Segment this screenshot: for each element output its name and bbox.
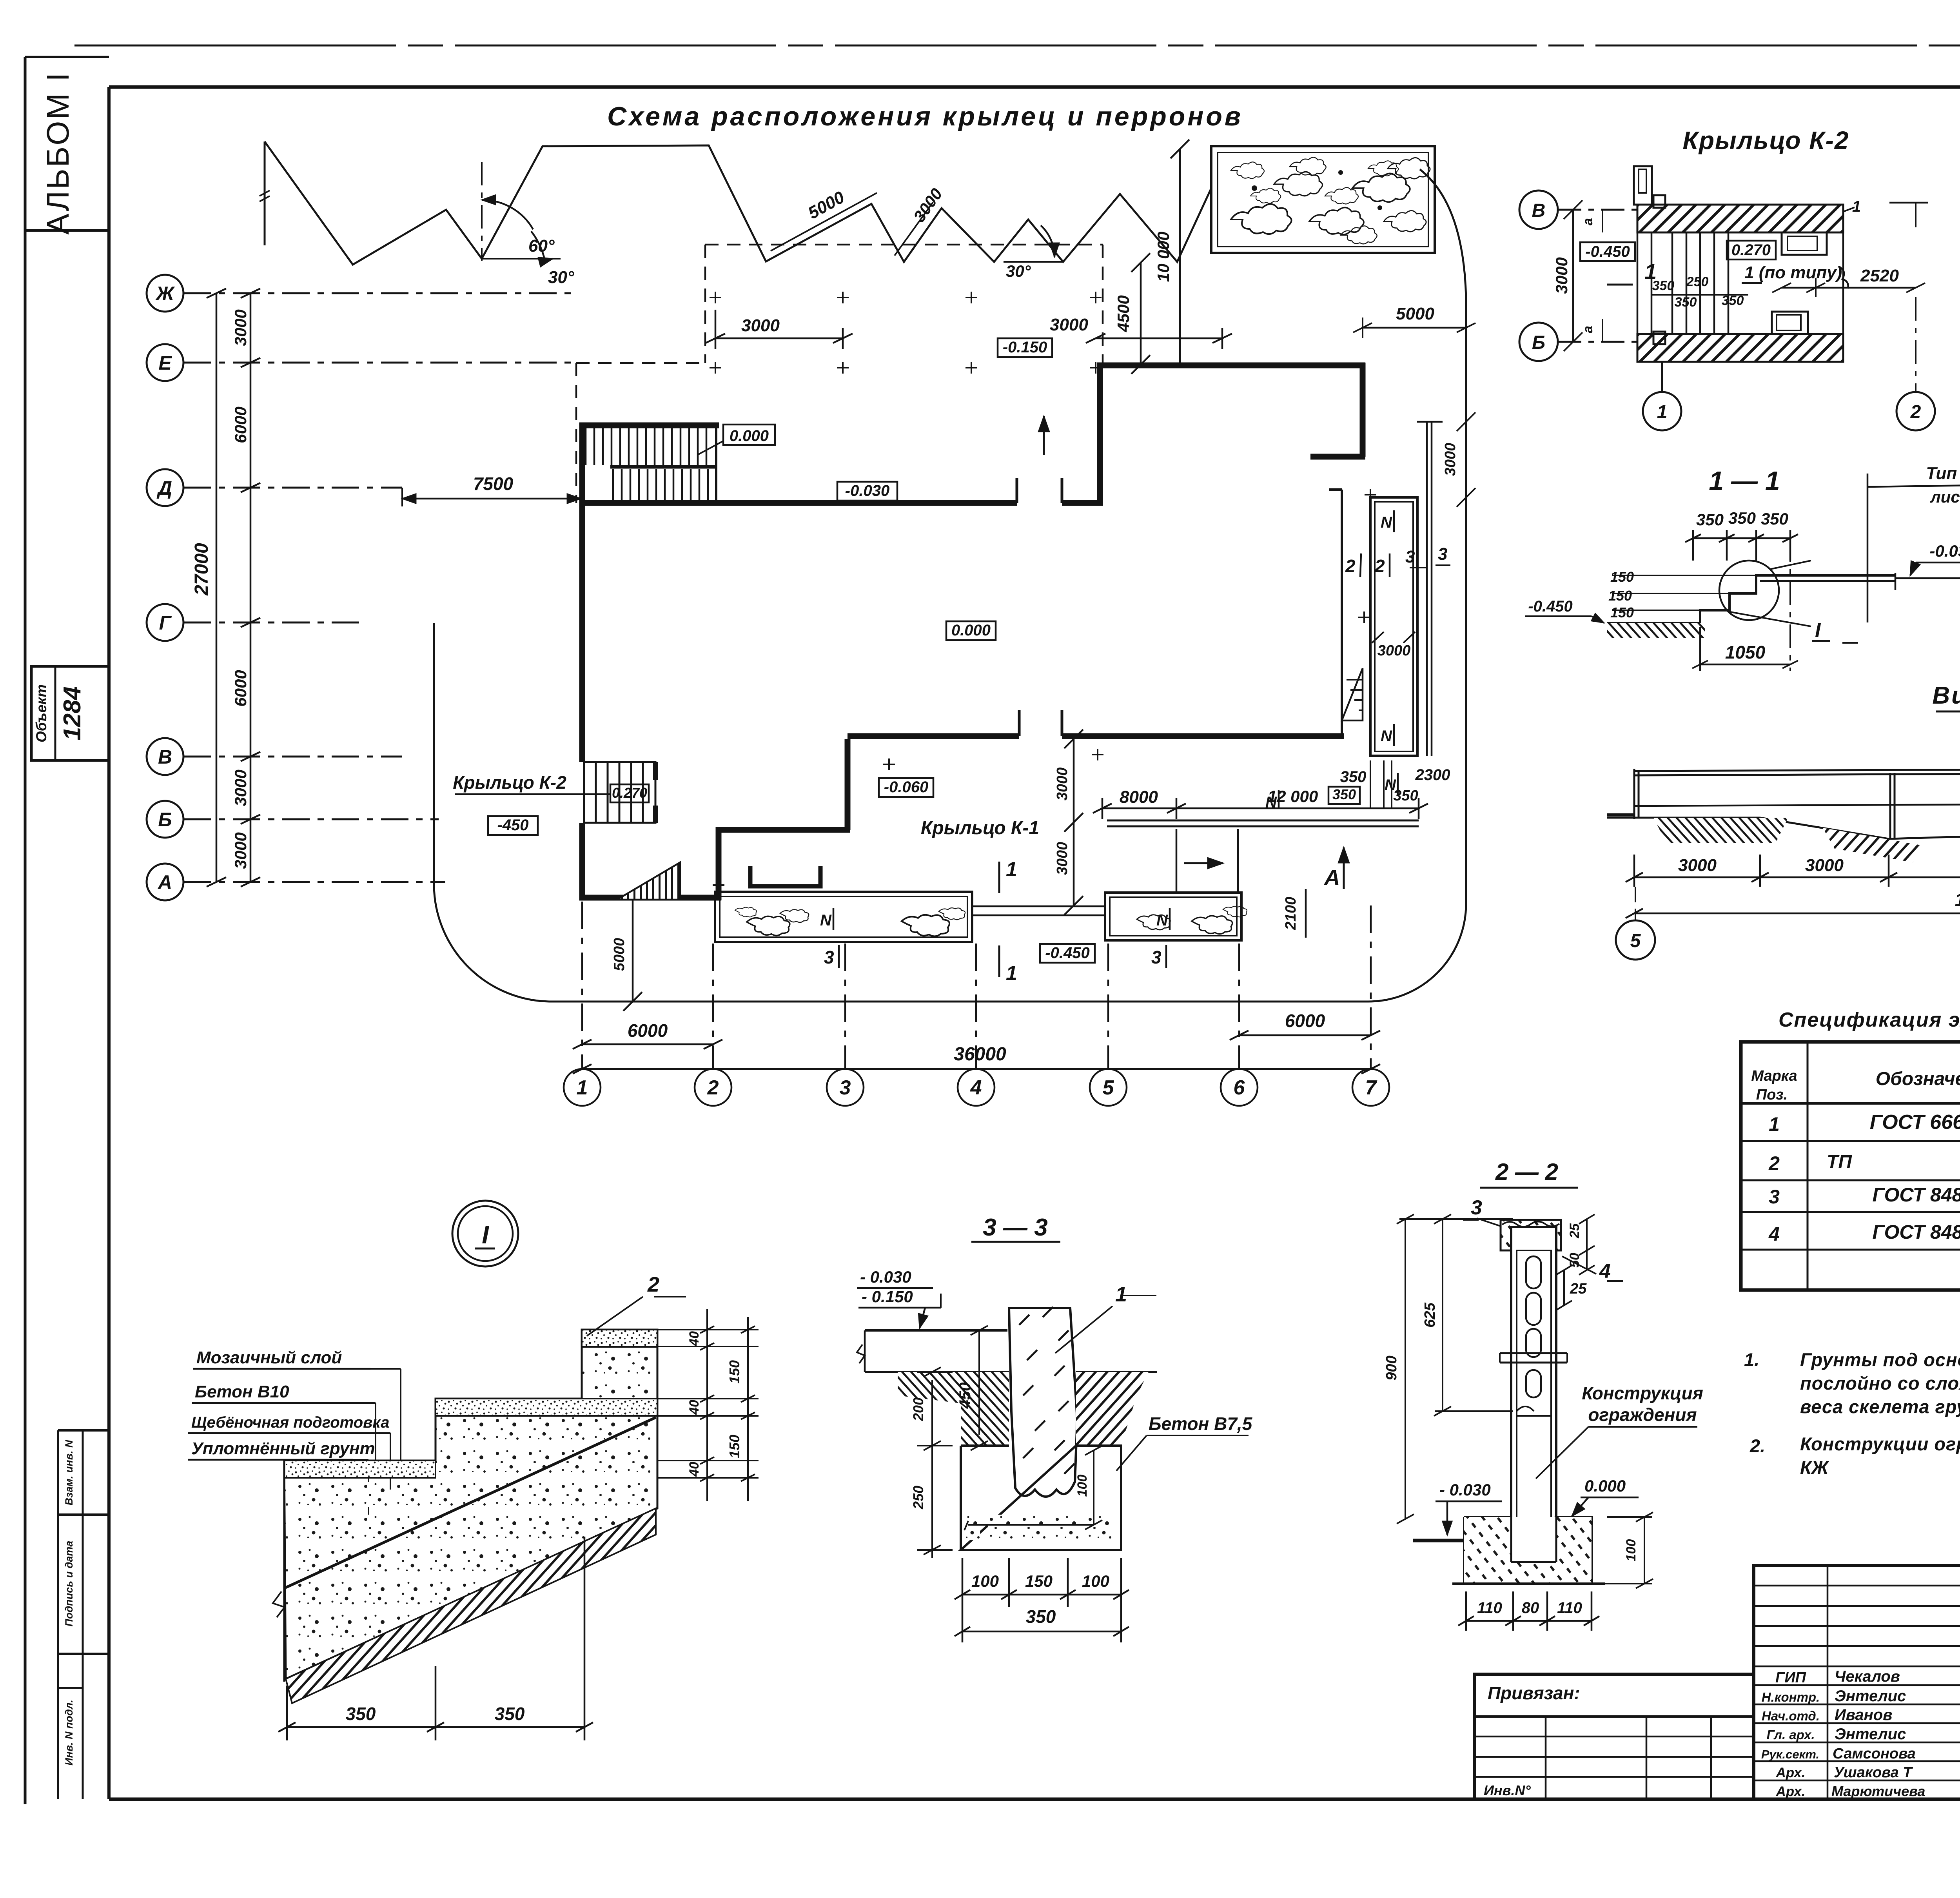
svg-text:Арх.: Арх. <box>1776 1765 1806 1780</box>
svg-text:0.000: 0.000 <box>951 622 991 639</box>
svg-text:40: 40 <box>687 1400 702 1415</box>
svg-text:3000: 3000 <box>1377 642 1411 659</box>
svg-text:Щебёночная подготовка: Щебёночная подготовка <box>191 1414 389 1431</box>
svg-text:1284: 1284 <box>59 686 86 740</box>
svg-text:послойно со слоями 20 ÷ 30: послойно со слоями 20 ÷ 30 см с доведени… <box>1800 1373 1960 1394</box>
svg-text:1: 1 <box>1852 198 1861 215</box>
svg-text:200: 200 <box>910 1397 926 1421</box>
svg-text:Крыльцо К-1: Крыльцо К-1 <box>921 818 1039 838</box>
svg-text:4500: 4500 <box>1114 295 1132 332</box>
svg-text:100: 100 <box>1082 1572 1109 1590</box>
svg-text:3: 3 <box>840 1076 851 1099</box>
svg-text:Взам. инв. N: Взам. инв. N <box>63 1440 75 1505</box>
svg-text:15 000: 15 000 <box>1955 890 1960 911</box>
svg-text:3: 3 <box>824 947 834 967</box>
svg-text:Бетон В7,5: Бетон В7,5 <box>1149 1414 1253 1434</box>
svg-text:ограждения: ограждения <box>1588 1404 1697 1425</box>
svg-text:Чекалов: Чекалов <box>1835 1668 1900 1685</box>
svg-text:N: N <box>1265 794 1277 811</box>
svg-text:1 (по типу): 1 (по типу) <box>1744 263 1842 282</box>
svg-text:0.270: 0.270 <box>1731 241 1771 259</box>
svg-text:2: 2 <box>1345 556 1356 576</box>
svg-text:2100: 2100 <box>1283 897 1299 931</box>
svg-text:КЖ: КЖ <box>1800 1457 1829 1478</box>
svg-text:25: 25 <box>1567 1223 1582 1239</box>
svg-text:ГОСТ 6665-82: ГОСТ 6665-82 <box>1870 1111 1960 1134</box>
svg-text:ТП: ТП <box>1827 1152 1852 1172</box>
svg-text:Арх.: Арх. <box>1776 1784 1806 1799</box>
svg-text:-0.450: -0.450 <box>1045 944 1089 962</box>
svg-text:450: 450 <box>956 1383 974 1409</box>
svg-text:110: 110 <box>1557 1599 1582 1617</box>
svg-text:6000: 6000 <box>231 406 250 443</box>
svg-text:3000: 3000 <box>231 769 250 806</box>
svg-text:-0.030: -0.030 <box>845 482 889 499</box>
svg-text:0.270: 0.270 <box>612 785 647 801</box>
svg-text:350: 350 <box>1761 510 1788 528</box>
svg-text:Рук.сект.: Рук.сект. <box>1761 1747 1819 1761</box>
svg-text:350: 350 <box>1026 1606 1056 1627</box>
svg-text:3: 3 <box>1151 947 1161 967</box>
svg-text:I: I <box>1815 619 1821 642</box>
svg-text:36000: 36000 <box>954 1044 1006 1065</box>
svg-text:6000: 6000 <box>628 1020 668 1041</box>
svg-text:3 — 3: 3 — 3 <box>983 1214 1047 1241</box>
svg-text:ГОСТ 8486-66: ГОСТ 8486-66 <box>1872 1184 1960 1206</box>
svg-text:Б: Б <box>158 809 172 831</box>
svg-text:- 0.150: - 0.150 <box>862 1287 913 1306</box>
svg-text:250: 250 <box>1686 274 1709 289</box>
svg-text:Конструкции ограждения крыл: Конструкции ограждения крыльца приведены… <box>1800 1433 1960 1454</box>
svg-text:2 — 2: 2 — 2 <box>1495 1159 1558 1185</box>
svg-text:Н.контр.: Н.контр. <box>1762 1690 1820 1704</box>
svg-text:1: 1 <box>1657 402 1668 423</box>
svg-text:3: 3 <box>1438 544 1447 564</box>
svg-text:Тип пола 1: Тип пола 1 <box>1926 464 1960 483</box>
svg-text:Мозаичный слой: Мозаичный слой <box>196 1348 342 1367</box>
svg-text:25: 25 <box>1570 1281 1587 1297</box>
svg-text:4: 4 <box>1599 1260 1611 1283</box>
svg-text:2: 2 <box>647 1273 659 1296</box>
svg-text:Гл. арх.: Гл. арх. <box>1766 1727 1815 1742</box>
svg-text:Б: Б <box>1532 332 1545 353</box>
svg-text:Крыльцо К-2: Крыльцо К-2 <box>453 772 566 793</box>
svg-text:Энтелис: Энтелис <box>1835 1726 1906 1743</box>
svg-text:-0.450: -0.450 <box>1585 243 1630 260</box>
svg-text:-0.450: -0.450 <box>1528 598 1572 615</box>
svg-text:Подпись и дата: Подпись и дата <box>63 1541 75 1627</box>
svg-text:3000: 3000 <box>1054 768 1071 801</box>
svg-text:Обозначение: Обозначение <box>1876 1069 1960 1089</box>
svg-text:N: N <box>820 912 832 929</box>
svg-text:Спецификация элементов благо: Спецификация элементов благоустройства к… <box>1779 1009 1960 1031</box>
svg-text:В: В <box>1532 200 1546 221</box>
svg-text:100: 100 <box>1624 1539 1639 1562</box>
svg-text:150: 150 <box>726 1435 742 1458</box>
svg-text:3: 3 <box>1405 547 1415 566</box>
svg-text:Бетон В10: Бетон В10 <box>195 1382 289 1401</box>
svg-text:Д: Д <box>156 477 172 499</box>
svg-text:30°: 30° <box>548 268 574 287</box>
svg-text:Грунты под основания лестни: Грунты под основания лестниц и пандусов … <box>1800 1349 1960 1370</box>
svg-text:5000: 5000 <box>611 938 628 971</box>
svg-text:7500: 7500 <box>473 474 514 494</box>
svg-text:3000: 3000 <box>1442 443 1459 476</box>
svg-text:3000: 3000 <box>741 316 780 335</box>
svg-text:-0.060: -0.060 <box>884 778 928 796</box>
svg-text:- 0.030: - 0.030 <box>1439 1481 1491 1499</box>
svg-text:-0.030: -0.030 <box>1929 542 1960 560</box>
svg-text:350: 350 <box>1652 278 1675 293</box>
svg-text:40: 40 <box>687 1331 702 1346</box>
svg-text:Ушакова Т: Ушакова Т <box>1834 1764 1913 1781</box>
svg-text:Уплотнённый грунт: Уплотнённый грунт <box>191 1439 375 1458</box>
svg-text:100: 100 <box>1075 1475 1090 1497</box>
svg-text:Марка: Марка <box>1751 1068 1797 1084</box>
svg-text:Самсонова: Самсонова <box>1833 1746 1916 1762</box>
svg-text:60°: 60° <box>528 236 555 256</box>
svg-text:7: 7 <box>1365 1076 1377 1099</box>
svg-text:150: 150 <box>1610 604 1634 621</box>
svg-text:0.000: 0.000 <box>1584 1477 1626 1495</box>
svg-text:Крыльцо К-2: Крыльцо К-2 <box>1683 126 1849 154</box>
svg-text:900: 900 <box>1383 1355 1400 1380</box>
svg-text:N: N <box>1385 777 1396 794</box>
svg-text:150: 150 <box>1608 588 1632 604</box>
svg-text:2: 2 <box>707 1076 719 1099</box>
svg-text:а: а <box>1581 218 1595 225</box>
svg-text:3000: 3000 <box>1552 257 1571 294</box>
svg-text:Е: Е <box>158 352 172 374</box>
svg-text:1: 1 <box>1006 962 1017 985</box>
svg-text:1: 1 <box>1115 1283 1127 1306</box>
svg-text:625: 625 <box>1422 1302 1438 1327</box>
svg-text:1 — 1: 1 — 1 <box>1709 466 1780 496</box>
svg-text:АЛЬБОМ I: АЛЬБОМ I <box>40 71 75 234</box>
svg-text:3: 3 <box>1471 1196 1482 1219</box>
svg-text:ГОСТ 8486-66: ГОСТ 8486-66 <box>1872 1221 1960 1243</box>
svg-text:лист 16: лист 16 <box>1930 488 1960 506</box>
svg-text:5000: 5000 <box>1396 304 1434 323</box>
svg-text:I: I <box>482 1221 489 1249</box>
svg-text:5: 5 <box>1103 1076 1114 1099</box>
svg-text:2: 2 <box>1910 402 1921 423</box>
svg-text:Инв. N подл.: Инв. N подл. <box>63 1700 75 1766</box>
svg-text:Объект: Объект <box>33 684 49 742</box>
svg-text:5: 5 <box>1630 931 1641 951</box>
svg-text:80: 80 <box>1522 1599 1539 1617</box>
svg-text:6: 6 <box>1234 1076 1245 1099</box>
svg-text:27000: 27000 <box>191 543 212 596</box>
svg-text:150: 150 <box>726 1360 742 1384</box>
svg-text:Марютичева: Марютичева <box>1831 1783 1925 1799</box>
svg-text:Поз.: Поз. <box>1756 1087 1788 1103</box>
svg-text:3000: 3000 <box>231 832 250 869</box>
svg-text:Конструкция: Конструкция <box>1582 1383 1703 1403</box>
svg-text:N: N <box>1381 728 1392 745</box>
svg-text:3000: 3000 <box>1050 315 1088 334</box>
svg-text:1: 1 <box>577 1076 588 1099</box>
svg-text:3000: 3000 <box>1678 856 1717 875</box>
svg-text:0.000: 0.000 <box>730 427 769 445</box>
svg-text:10 000: 10 000 <box>1154 232 1172 282</box>
svg-text:- 0.030: - 0.030 <box>860 1268 911 1286</box>
svg-text:3: 3 <box>1769 1186 1780 1208</box>
svg-text:а: а <box>1581 326 1595 333</box>
svg-text:4: 4 <box>970 1076 982 1099</box>
svg-text:N: N <box>1381 514 1392 531</box>
svg-text:Инв.N°: Инв.N° <box>1484 1782 1531 1798</box>
svg-text:100: 100 <box>971 1572 999 1590</box>
svg-text:350: 350 <box>1696 510 1724 529</box>
svg-text:Вид „А": Вид „А" <box>1932 682 1960 709</box>
svg-text:Энтелис: Энтелис <box>1835 1688 1906 1705</box>
svg-text:1.: 1. <box>1744 1349 1759 1370</box>
svg-text:В: В <box>158 746 172 768</box>
svg-text:350: 350 <box>1340 768 1367 786</box>
svg-text:Схема расположения крылец и: Схема расположения крылец и перронов <box>607 102 1243 131</box>
svg-text:350: 350 <box>346 1704 376 1724</box>
svg-text:2300: 2300 <box>1415 766 1450 784</box>
svg-text:6000: 6000 <box>1285 1011 1325 1031</box>
svg-text:А: А <box>157 871 172 893</box>
svg-text:Привязан:: Привязан: <box>1488 1683 1580 1703</box>
svg-text:110: 110 <box>1477 1599 1502 1617</box>
svg-text:N: N <box>1156 912 1168 929</box>
svg-text:Иванов: Иванов <box>1835 1706 1892 1724</box>
svg-text:2: 2 <box>1374 556 1385 576</box>
svg-text:150: 150 <box>1025 1572 1053 1590</box>
svg-text:350: 350 <box>1332 786 1356 802</box>
svg-text:Ж: Ж <box>155 283 175 305</box>
svg-text:250: 250 <box>910 1486 926 1510</box>
svg-text:3000: 3000 <box>1054 842 1071 875</box>
svg-text:2: 2 <box>1768 1152 1780 1174</box>
svg-text:Нач.отд.: Нач.отд. <box>1762 1709 1820 1723</box>
svg-text:8000: 8000 <box>1120 788 1158 807</box>
svg-text:1050: 1050 <box>1725 642 1766 662</box>
svg-text:3000: 3000 <box>1805 856 1844 875</box>
svg-text:1: 1 <box>1006 858 1017 881</box>
svg-text:350: 350 <box>495 1704 525 1724</box>
svg-text:Г: Г <box>159 612 172 634</box>
svg-text:-450: -450 <box>497 817 528 834</box>
svg-text:350: 350 <box>1728 509 1756 527</box>
svg-text:ГИП: ГИП <box>1775 1669 1806 1686</box>
svg-text:А: А <box>1323 865 1340 890</box>
svg-text:30°: 30° <box>1006 262 1031 280</box>
svg-text:3000: 3000 <box>231 309 250 346</box>
svg-text:150: 150 <box>1610 569 1634 585</box>
svg-text:6000: 6000 <box>231 670 250 706</box>
svg-text:1: 1 <box>1769 1113 1780 1135</box>
svg-text:40: 40 <box>687 1462 702 1477</box>
svg-text:2.: 2. <box>1749 1435 1765 1456</box>
svg-text:4: 4 <box>1768 1223 1780 1245</box>
svg-text:2520: 2520 <box>1860 266 1899 285</box>
svg-text:350: 350 <box>1675 295 1697 310</box>
svg-text:-0.150: -0.150 <box>1003 339 1047 356</box>
svg-text:веса скелета грунта до γ г: веса скелета грунта до γ гр. = 1.65 тс/м… <box>1800 1396 1960 1417</box>
